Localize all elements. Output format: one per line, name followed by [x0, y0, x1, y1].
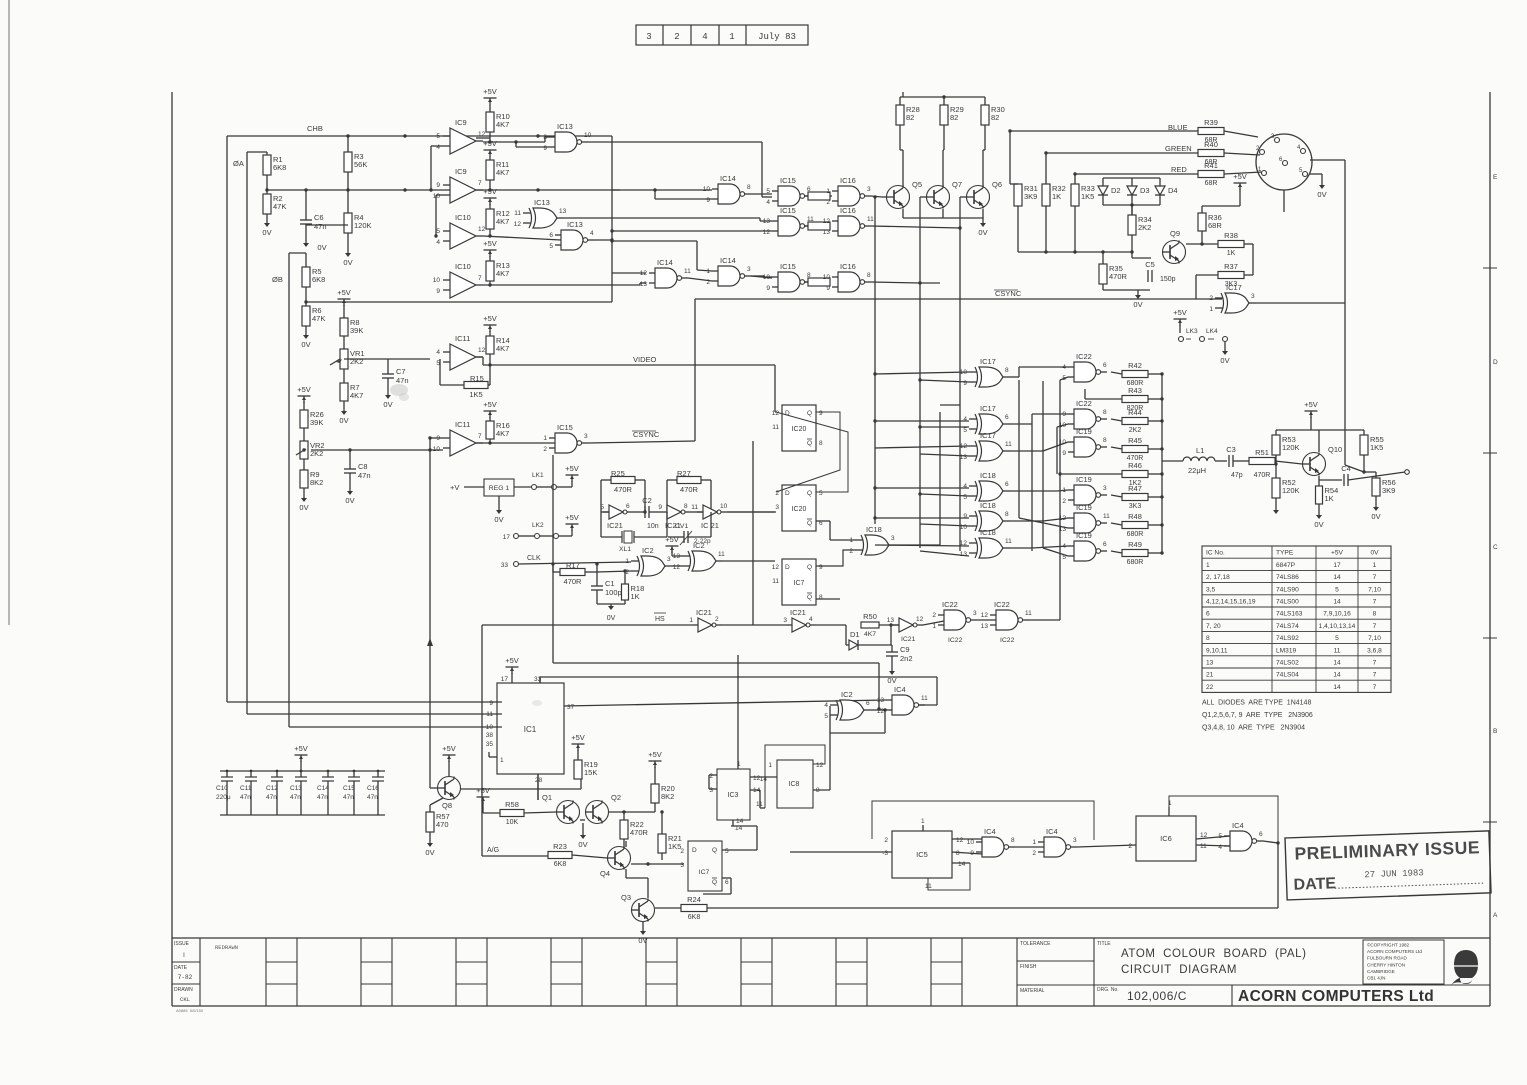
svg-text:13: 13 [823, 229, 831, 236]
svg-text:IC4: IC4 [1046, 827, 1058, 836]
svg-text:1K: 1K [631, 592, 640, 601]
svg-text:C14: C14 [317, 785, 329, 792]
svg-text:ACORN COMPUTERS Ltd: ACORN COMPUTERS Ltd [1367, 949, 1422, 954]
svg-text:IC22: IC22 [1076, 352, 1092, 361]
svg-text:Q: Q [712, 847, 717, 854]
svg-text:IC3: IC3 [728, 792, 739, 799]
svg-text:47n: 47n [358, 471, 371, 480]
svg-text:-3: -3 [882, 850, 888, 857]
svg-text:3K9: 3K9 [1024, 192, 1037, 201]
svg-text:0V: 0V [978, 228, 987, 237]
svg-text:9: 9 [543, 145, 547, 152]
svg-text:1: 1 [768, 762, 772, 769]
svg-text:14: 14 [958, 861, 966, 868]
svg-text:3: 3 [891, 535, 895, 542]
svg-text:IC13: IC13 [557, 122, 573, 131]
svg-text:FINISH: FINISH [1020, 964, 1037, 970]
svg-text:CHERRY HINTON: CHERRY HINTON [1367, 962, 1405, 967]
svg-text:IC19: IC19 [1076, 531, 1092, 540]
svg-text:IC22: IC22 [1076, 399, 1092, 408]
svg-text:C3: C3 [1226, 445, 1236, 454]
svg-text:D4: D4 [1168, 186, 1178, 195]
svg-text:IC20: IC20 [792, 426, 807, 433]
svg-text:8: 8 [1005, 367, 1009, 374]
svg-text:+5V: +5V [1233, 172, 1247, 181]
svg-text:4: 4 [436, 349, 440, 356]
svg-text:R40: R40 [1204, 140, 1218, 149]
svg-text:9: 9 [970, 850, 974, 857]
svg-text:+5V: +5V [337, 288, 351, 297]
svg-text:3K9: 3K9 [1382, 486, 1395, 495]
svg-text:470R: 470R [614, 485, 633, 494]
svg-text:5: 5 [1218, 833, 1222, 840]
svg-text:8: 8 [867, 272, 871, 279]
svg-text:1: 1 [625, 558, 629, 565]
svg-text:3: 3 [973, 610, 977, 617]
svg-text:ISSUE: ISSUE [174, 941, 190, 947]
svg-text:1: 1 [826, 188, 830, 195]
svg-text:+5V: +5V [483, 139, 497, 148]
svg-text:R24: R24 [687, 895, 701, 904]
svg-text:HS: HS [655, 616, 665, 623]
svg-text:Q: Q [807, 594, 812, 601]
svg-text:2: 2 [1128, 843, 1132, 850]
svg-text:Q5: Q5 [912, 180, 922, 189]
svg-text:Q10: Q10 [1328, 445, 1342, 454]
svg-text:IC16: IC16 [840, 176, 856, 185]
svg-text:0V: 0V [425, 848, 434, 857]
svg-text:6: 6 [549, 232, 553, 239]
svg-text:74LS86: 74LS86 [1276, 574, 1299, 581]
svg-text:FULBOURN ROAD: FULBOURN ROAD [1367, 956, 1407, 961]
svg-text:11: 11 [867, 216, 874, 223]
svg-text:150p: 150p [1160, 276, 1176, 283]
svg-text:D3: D3 [1140, 186, 1150, 195]
svg-text:E: E [1493, 174, 1498, 181]
svg-text:©COPYRIGHT 1982: ©COPYRIGHT 1982 [1367, 942, 1410, 948]
svg-text:B: B [1493, 728, 1497, 735]
svg-text:L1: L1 [1196, 446, 1204, 455]
svg-text:9: 9 [436, 435, 440, 442]
svg-text:LK1: LK1 [532, 472, 544, 479]
svg-text:IC9: IC9 [455, 118, 467, 127]
svg-text:C6: C6 [314, 213, 324, 222]
svg-text:74LS02: 74LS02 [1276, 660, 1299, 667]
svg-text:4K7: 4K7 [496, 120, 509, 129]
svg-text:6: 6 [866, 700, 870, 707]
svg-text:2: 2 [826, 199, 830, 206]
svg-text:D1: D1 [850, 630, 860, 639]
svg-text:39K: 39K [310, 418, 323, 427]
svg-text:IC22: IC22 [942, 600, 958, 609]
svg-text:9: 9 [766, 285, 770, 292]
svg-text:4K7: 4K7 [496, 429, 509, 438]
svg-text:R47: R47 [1128, 484, 1142, 493]
svg-text:470R: 470R [564, 577, 583, 586]
svg-text:1K5: 1K5 [668, 842, 681, 851]
svg-text:14: 14 [1333, 599, 1341, 606]
svg-text:+5V: +5V [665, 535, 679, 544]
svg-text:9: 9 [826, 285, 830, 292]
svg-text:ACORN COMPUTERS Ltd: ACORN COMPUTERS Ltd [1238, 988, 1434, 1005]
svg-text:C9: C9 [900, 645, 910, 654]
svg-text:+5V: +5V [476, 786, 490, 795]
svg-text:47n: 47n [367, 794, 378, 801]
svg-text:6: 6 [1005, 481, 1009, 488]
svg-text:R46: R46 [1128, 461, 1142, 470]
svg-text:4: 4 [766, 199, 770, 206]
svg-text:D: D [785, 490, 790, 497]
svg-text:4: 4 [809, 616, 813, 623]
svg-text:10: 10 [720, 503, 728, 510]
svg-text:+5V: +5V [483, 314, 497, 323]
svg-text:6: 6 [1206, 611, 1210, 618]
svg-text:5: 5 [436, 228, 440, 235]
svg-text:3: 3 [584, 433, 588, 440]
svg-text:1,4,10,13,14: 1,4,10,13,14 [1319, 623, 1356, 630]
svg-text:+5V: +5V [505, 656, 519, 665]
svg-text:8: 8 [684, 503, 688, 510]
svg-text:6: 6 [1005, 414, 1009, 421]
svg-text:11: 11 [684, 268, 691, 275]
svg-text:11: 11 [925, 883, 932, 890]
svg-text:+5V: +5V [1331, 550, 1344, 557]
svg-text:IC22: IC22 [994, 600, 1010, 609]
svg-text:IC21: IC21 [607, 521, 623, 530]
svg-text:R50: R50 [863, 612, 877, 621]
svg-text:IC21: IC21 [696, 608, 712, 617]
svg-text:8: 8 [747, 184, 751, 191]
svg-text:11: 11 [1005, 538, 1012, 545]
svg-text:11: 11 [772, 424, 779, 431]
svg-text:102,006/C: 102,006/C [1127, 989, 1187, 1003]
svg-text:C: C [1493, 544, 1498, 551]
svg-text:10n: 10n [647, 523, 659, 530]
svg-text:5: 5 [963, 494, 967, 501]
svg-text:8K2: 8K2 [661, 792, 674, 801]
svg-text:6K8: 6K8 [273, 163, 286, 172]
svg-text:47n: 47n [240, 794, 251, 801]
svg-text:14: 14 [736, 818, 744, 825]
svg-text:TITLE: TITLE [1097, 941, 1111, 947]
svg-text:IC16: IC16 [840, 206, 856, 215]
svg-text:12: 12 [772, 564, 780, 571]
svg-text:5: 5 [824, 713, 828, 720]
svg-text:11: 11 [772, 578, 779, 585]
svg-text:10: 10 [433, 446, 441, 453]
svg-text:Q4: Q4 [600, 869, 610, 878]
svg-text:1: 1 [729, 32, 734, 42]
svg-text:74LS92: 74LS92 [1276, 635, 1299, 642]
svg-text:IC17: IC17 [1226, 283, 1242, 292]
svg-text:11: 11 [486, 711, 493, 718]
svg-text:10: 10 [823, 274, 831, 281]
svg-text:7: 7 [1373, 574, 1377, 581]
svg-text:2: 2 [932, 612, 936, 619]
svg-text:47n: 47n [317, 794, 328, 801]
svg-text:C11: C11 [240, 785, 252, 792]
svg-text:1: 1 [1032, 839, 1036, 846]
svg-text:6: 6 [626, 503, 630, 510]
svg-text:IC7: IC7 [794, 580, 805, 587]
svg-text:3: 3 [783, 617, 787, 624]
svg-text:C12: C12 [266, 785, 278, 792]
svg-text:1: 1 [1373, 562, 1377, 569]
svg-text:7,10: 7,10 [1368, 635, 1381, 642]
svg-text:47K: 47K [273, 202, 286, 211]
svg-text:July 83: July 83 [758, 32, 796, 42]
svg-text:C7: C7 [396, 367, 406, 376]
svg-text:R15: R15 [470, 374, 484, 383]
svg-text:D: D [785, 564, 790, 571]
svg-text:9: 9 [489, 700, 493, 707]
svg-text:47n: 47n [266, 794, 277, 801]
svg-text:CKL: CKL [180, 996, 190, 1003]
svg-text:3: 3 [1251, 293, 1255, 300]
svg-text:0V: 0V [607, 615, 616, 622]
svg-text:3: 3 [867, 186, 871, 193]
svg-text:+5V: +5V [483, 239, 497, 248]
svg-text:7: 7 [478, 180, 482, 187]
svg-text:8K2: 8K2 [310, 478, 323, 487]
svg-text:1: 1 [543, 435, 547, 442]
svg-text:12: 12 [916, 616, 924, 623]
svg-text:GREEN: GREEN [1165, 144, 1192, 153]
svg-text:10: 10 [584, 132, 592, 139]
svg-text:5: 5 [1335, 635, 1339, 642]
svg-text:2: 2 [680, 848, 684, 855]
svg-text:+5V: +5V [297, 385, 311, 394]
svg-text:0V: 0V [1314, 520, 1323, 529]
svg-text:9: 9 [819, 564, 823, 571]
svg-text:C10: C10 [216, 785, 228, 792]
svg-text:0V: 0V [1220, 356, 1229, 365]
svg-text:0V: 0V [299, 503, 308, 512]
svg-text:5: 5 [963, 427, 967, 434]
svg-text:A0885 5/0/150: A0885 5/0/150 [176, 1008, 204, 1013]
svg-text:5: 5 [549, 243, 553, 250]
svg-text:1: 1 [689, 617, 693, 624]
svg-text:12: 12 [478, 347, 486, 354]
svg-text:470R: 470R [1109, 272, 1128, 281]
svg-text:7,10: 7,10 [1368, 586, 1381, 593]
svg-text:11: 11 [1200, 843, 1207, 850]
svg-text:68R: 68R [1208, 221, 1222, 230]
svg-text:IC16: IC16 [840, 262, 856, 271]
svg-text:680R: 680R [1127, 559, 1144, 566]
svg-text:IC8: IC8 [789, 781, 800, 788]
svg-text:11: 11 [1005, 441, 1012, 448]
svg-text:4: 4 [963, 483, 967, 490]
svg-text:13: 13 [981, 623, 989, 630]
svg-text:17: 17 [501, 676, 509, 683]
svg-text:10K: 10K [506, 819, 519, 826]
svg-text:2: 2 [849, 548, 853, 555]
svg-text:56K: 56K [354, 160, 367, 169]
svg-text:4: 4 [963, 416, 967, 423]
svg-text:0V: 0V [638, 936, 647, 945]
svg-text:IC2: IC2 [693, 541, 705, 550]
svg-text:0V: 0V [301, 340, 310, 349]
svg-text:CV1: CV1 [675, 523, 688, 530]
svg-text:74LS163: 74LS163 [1276, 611, 1303, 618]
svg-text:Q9: Q9 [1170, 229, 1180, 238]
svg-text:0V: 0V [383, 400, 392, 409]
svg-text:+5V: +5V [483, 87, 497, 96]
svg-text:R43: R43 [1128, 386, 1142, 395]
svg-text:5: 5 [819, 490, 823, 497]
svg-text:11: 11 [1334, 647, 1341, 654]
svg-text:Q: Q [807, 564, 812, 571]
svg-text:TYPE: TYPE [1276, 550, 1294, 557]
svg-text:13: 13 [559, 208, 567, 215]
svg-text:+5V: +5V [294, 744, 308, 753]
svg-text:82: 82 [950, 113, 958, 122]
svg-text:ATOM COLOUR BOARD (PAL): ATOM COLOUR BOARD (PAL) [1121, 948, 1307, 960]
svg-text:C15: C15 [343, 785, 355, 792]
svg-text:4K7: 4K7 [496, 344, 509, 353]
svg-text:+5V: +5V [442, 744, 456, 753]
svg-text:4K7: 4K7 [350, 391, 363, 400]
svg-text:R49: R49 [1128, 540, 1142, 549]
svg-text:0V: 0V [578, 840, 587, 849]
svg-text:13: 13 [877, 697, 885, 704]
svg-text:74LS04: 74LS04 [1276, 672, 1299, 679]
svg-text:D: D [692, 847, 697, 854]
svg-text:0V: 0V [345, 496, 354, 505]
svg-text:LK3: LK3 [1186, 328, 1198, 335]
svg-text:3: 3 [1073, 837, 1077, 844]
svg-text:11: 11 [718, 551, 725, 558]
svg-text:1: 1 [500, 757, 504, 764]
svg-text:IC22: IC22 [1000, 637, 1015, 644]
svg-text:12: 12 [478, 131, 486, 138]
svg-text:11: 11 [921, 695, 928, 702]
svg-text:1K5: 1K5 [1081, 192, 1094, 201]
svg-text:47n: 47n [343, 794, 354, 801]
svg-text:IC19: IC19 [1076, 503, 1092, 512]
svg-text:12: 12 [823, 218, 831, 225]
svg-text:7: 7 [1373, 623, 1377, 630]
svg-text:7-82: 7-82 [178, 974, 193, 981]
svg-text:C2: C2 [642, 496, 652, 505]
svg-text:120K: 120K [1282, 443, 1300, 452]
svg-text:82: 82 [991, 113, 999, 122]
svg-text:3: 3 [680, 862, 684, 869]
svg-text:0V: 0V [317, 243, 326, 252]
svg-text:1: 1 [1206, 562, 1210, 569]
svg-text:12: 12 [981, 612, 989, 619]
svg-text:4K7: 4K7 [496, 217, 509, 226]
svg-text:ØA: ØA [233, 159, 244, 168]
svg-text:120K: 120K [1282, 486, 1300, 495]
svg-text:8: 8 [819, 440, 823, 447]
svg-text:+5V: +5V [483, 187, 497, 196]
svg-text:+V: +V [450, 483, 459, 492]
svg-text:13: 13 [763, 218, 771, 225]
svg-text:IC2: IC2 [642, 546, 654, 555]
svg-text:12: 12 [514, 221, 522, 228]
svg-text:8: 8 [1005, 511, 1009, 518]
svg-text:6: 6 [1103, 541, 1107, 548]
svg-text:3: 3 [747, 266, 751, 273]
svg-text:IC11: IC11 [455, 334, 470, 343]
svg-text:IC15: IC15 [780, 206, 796, 215]
svg-text:IC No.: IC No. [1206, 550, 1225, 557]
svg-text:4,12,14,15,16,19: 4,12,14,15,16,19 [1206, 599, 1256, 606]
svg-text:IC4: IC4 [1232, 821, 1244, 830]
svg-text:74LS00: 74LS00 [1276, 599, 1299, 606]
svg-text:IC18: IC18 [980, 528, 996, 537]
svg-text:13: 13 [960, 551, 968, 558]
svg-text:MATERIAL: MATERIAL [1020, 988, 1045, 994]
svg-text:0V: 0V [343, 258, 352, 267]
svg-text:47n: 47n [396, 376, 409, 385]
svg-text:IC4: IC4 [984, 827, 996, 836]
svg-text:470: 470 [436, 820, 449, 829]
svg-text:9: 9 [436, 182, 440, 189]
svg-text:Q1: Q1 [542, 793, 552, 802]
svg-text:IC7: IC7 [699, 869, 710, 876]
svg-text:47n: 47n [290, 794, 301, 801]
svg-text:2: 2 [1062, 498, 1066, 505]
svg-text:47K: 47K [312, 314, 325, 323]
svg-text:9: 9 [963, 380, 967, 387]
svg-text:100p: 100p [605, 588, 622, 597]
svg-text:0V: 0V [1371, 512, 1380, 521]
svg-text:12: 12 [956, 837, 964, 844]
svg-text:C13: C13 [290, 785, 302, 792]
svg-text:Q2: Q2 [611, 793, 621, 802]
svg-text:10: 10 [433, 277, 441, 284]
svg-text:IC14: IC14 [657, 258, 673, 267]
svg-text:14: 14 [1333, 660, 1341, 667]
svg-text:2K2: 2K2 [1129, 427, 1142, 434]
svg-text:47n: 47n [314, 222, 327, 231]
svg-text:IC14: IC14 [720, 174, 736, 183]
svg-text:2: 2 [709, 773, 713, 780]
svg-text:21: 21 [1206, 672, 1214, 679]
svg-text:74LS90: 74LS90 [1276, 586, 1299, 593]
svg-text:Q: Q [712, 879, 717, 886]
svg-text:VIDEO: VIDEO [633, 355, 657, 364]
svg-text:6K8: 6K8 [554, 861, 567, 868]
svg-text:CIRCUIT DIAGRAM: CIRCUIT DIAGRAM [1121, 964, 1237, 976]
svg-text:37: 37 [567, 704, 575, 711]
svg-text:8: 8 [1103, 409, 1107, 416]
svg-text:R38: R38 [1224, 231, 1238, 240]
svg-text:IC10: IC10 [455, 213, 471, 222]
svg-text:47p: 47p [1231, 472, 1243, 479]
svg-text:IC1: IC1 [524, 725, 537, 734]
svg-text:IC18: IC18 [980, 501, 996, 510]
svg-text:R42: R42 [1128, 361, 1142, 370]
svg-text:4K7: 4K7 [496, 269, 509, 278]
svg-text:1K: 1K [1227, 250, 1236, 257]
svg-text:CB1 4JN: CB1 4JN [1367, 976, 1385, 981]
svg-text:14: 14 [1333, 684, 1341, 691]
svg-text:5: 5 [1335, 586, 1339, 593]
svg-text:LK2: LK2 [532, 522, 544, 529]
svg-text:5: 5 [725, 848, 729, 855]
svg-text:IC17: IC17 [980, 431, 996, 440]
svg-text:REG 1: REG 1 [489, 485, 510, 492]
svg-text:12: 12 [673, 564, 681, 571]
svg-text:IC19: IC19 [1076, 427, 1092, 436]
svg-text:+5V: +5V [648, 750, 662, 759]
svg-text:220μ: 220μ [216, 794, 231, 801]
svg-text:Q: Q [807, 520, 812, 527]
